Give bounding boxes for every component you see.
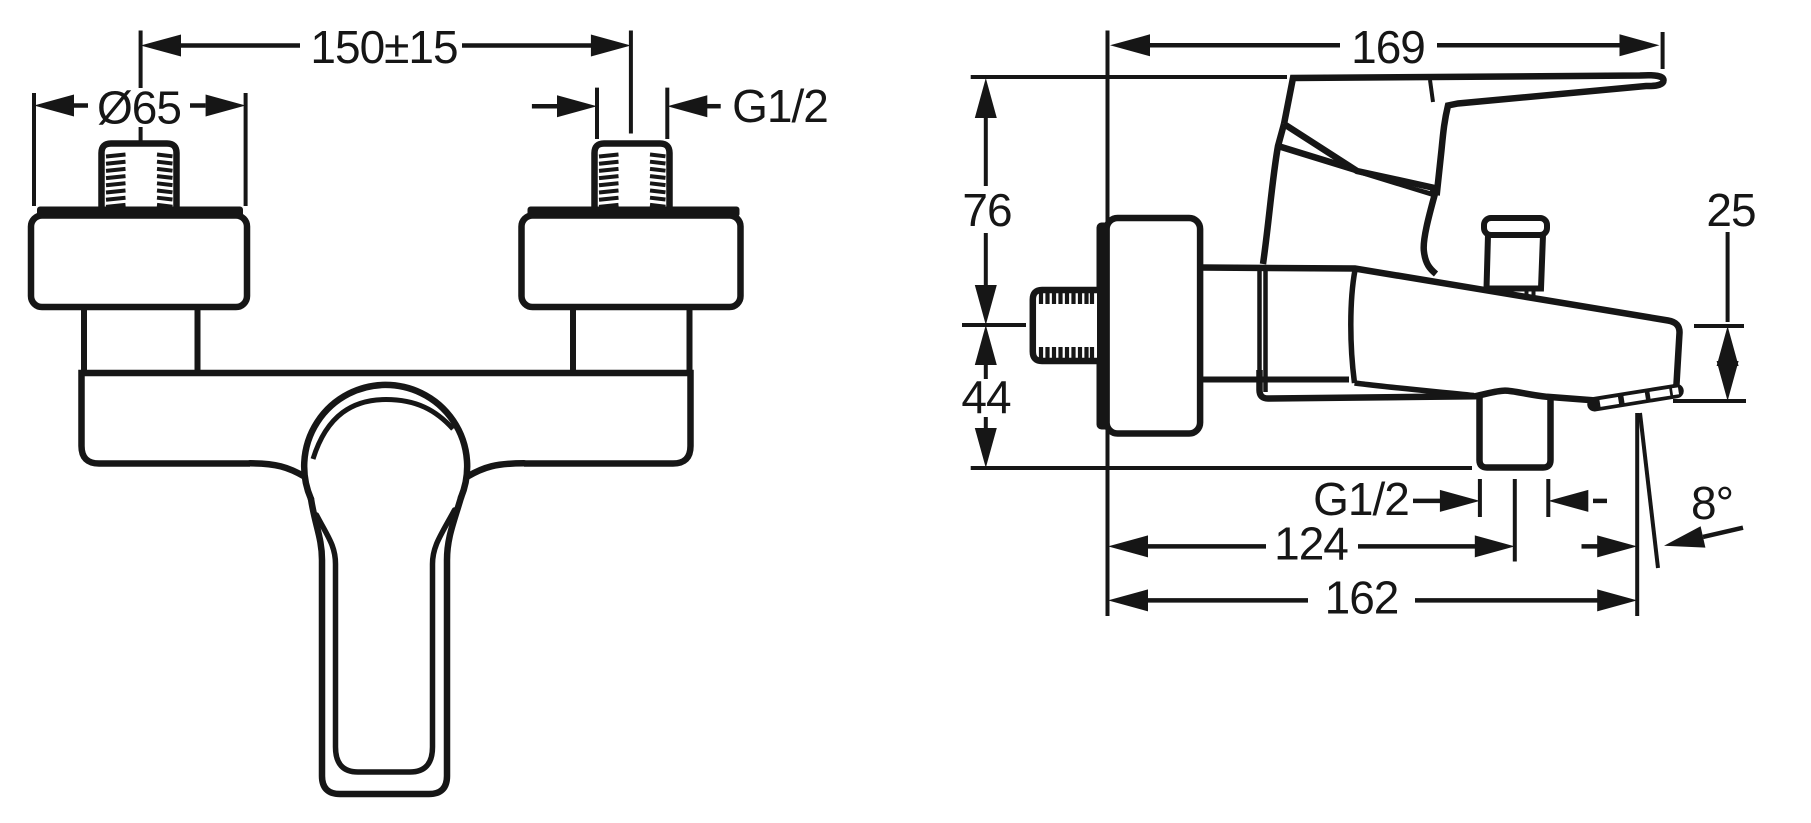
169 left extension / wall line [1106, 31, 1110, 617]
neck + chamber bottom line [1200, 377, 1349, 383]
left threaded stem body [102, 144, 177, 212]
cartridge separation curve [1351, 270, 1474, 396]
dimension Ø65 left arrow [34, 95, 74, 117]
svg-text:Ø65: Ø65 [97, 82, 181, 134]
G1/2 extension ticks [597, 88, 667, 139]
body left edge double line [1260, 268, 1266, 393]
dimension 150±15 line [181, 43, 591, 48]
dimension 162 [1148, 598, 1598, 603]
left stem threads [106, 155, 173, 207]
body bar fill [82, 373, 691, 464]
Ø65 extension line right [244, 93, 248, 206]
8 degree vertical reference [1635, 413, 1639, 616]
left neck lines [84, 308, 198, 374]
dimension 150±15 left arrow [141, 35, 181, 57]
svg-text:150±15: 150±15 [310, 21, 457, 73]
lever base chamfer [1284, 124, 1437, 189]
8 degree right arrow [1703, 528, 1743, 537]
handle dome circle fill [305, 386, 468, 549]
Ø65 extension line left [32, 93, 36, 206]
svg-text:25: 25 [1706, 184, 1755, 236]
right escutcheon [522, 216, 741, 308]
svg-text:169: 169 [1351, 21, 1425, 73]
nipple centerline tick [962, 323, 1026, 327]
threaded nipple [1033, 290, 1097, 361]
right neck lines [573, 308, 690, 374]
dimension Ø65 right arrow [206, 95, 246, 117]
svg-text:8°: 8° [1691, 477, 1733, 529]
right threaded stem body [595, 144, 670, 212]
svg-text:44: 44 [961, 371, 1011, 423]
dimension 150±15 right arrow [591, 35, 631, 57]
dimension 169 right arrow [1620, 34, 1660, 56]
handle grip fill [311, 498, 461, 795]
blade crease tick [1430, 80, 1433, 102]
centerline under Ø65 text [139, 127, 143, 146]
svg-text:162: 162 [1325, 572, 1399, 624]
dimension 25 [1673, 232, 1746, 401]
port centerline extension [1513, 479, 1517, 562]
diverter knob cap [1484, 218, 1547, 235]
handle dome arc outline [304, 385, 467, 499]
8 degree left arrow [1582, 544, 1601, 549]
dimension Ø65 line [74, 103, 206, 108]
44 bottom arrow [975, 428, 997, 468]
aerator [1595, 391, 1679, 404]
right escutcheon top bar [528, 207, 740, 218]
neck top line + body/spout top edge [1200, 268, 1680, 393]
left escutcheon [31, 216, 247, 308]
knob stem [1527, 290, 1534, 301]
body bottom outline with corner [1260, 370, 1597, 401]
extension line left stem centerline top [139, 31, 143, 89]
76 top arrow [975, 78, 997, 118]
diverter knob body [1487, 235, 1544, 289]
S-dip fillet left of dome [250, 463, 305, 476]
svg-text:76: 76 [962, 184, 1011, 236]
76/44 dimension shafts [984, 118, 988, 428]
left escutcheon top bar [37, 207, 243, 218]
nipple threads top row [1041, 293, 1092, 359]
76 bottom arrow [975, 285, 997, 325]
right stem threads [599, 155, 666, 207]
dimension 169 line [1150, 43, 1620, 48]
svg-text:G1/2: G1/2 [732, 80, 828, 132]
8 degree slanted line [1640, 413, 1658, 568]
handle grip outline [311, 498, 461, 795]
44 top arrow [975, 325, 997, 365]
dimension G1/2 side-view [1413, 499, 1445, 504]
169 right extension tick [1661, 32, 1665, 69]
dimension G1/2 left-view line+arrows [532, 104, 560, 109]
svg-text:124: 124 [1274, 518, 1348, 570]
lever blade + neck [1284, 75, 1664, 192]
G1/2 extension ticks [1480, 479, 1548, 517]
bottom port [1480, 393, 1551, 468]
body bar outline [82, 373, 691, 464]
dimension 169 left arrow [1110, 34, 1150, 56]
wall flange [1107, 218, 1201, 434]
extension line right stem centerline [629, 31, 633, 134]
S-dip fillet right of dome [468, 463, 525, 476]
handle dome side outline [1263, 124, 1434, 264]
dimension 124 [1148, 544, 1475, 549]
handle dome inner arc [313, 400, 453, 460]
44 bottom reference line [971, 466, 1472, 470]
76 top reference line [971, 75, 1287, 79]
wall plate [1097, 223, 1111, 430]
handle grip inner line [317, 510, 455, 772]
